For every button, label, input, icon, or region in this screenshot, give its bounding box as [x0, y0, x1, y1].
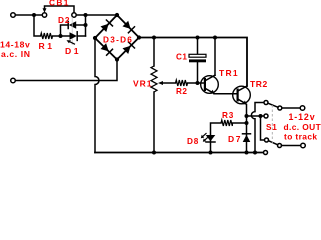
wire TR1 emitter to TR2 base — [214, 93, 237, 95]
junction dot rail/C1 — [196, 36, 200, 40]
wire 0V riser from bridge left corner with hop over AC wire — [95, 40, 99, 153]
wire emitter node to switch — [247, 115, 265, 117]
resistor R3 — [221, 120, 233, 126]
transistor TR1 — [201, 75, 219, 94]
wire C1 top stem — [197, 40, 199, 55]
terminal AC bottom-left — [11, 78, 16, 83]
svg-text:1-12v: 1-12v — [289, 112, 316, 122]
wire bridge bottom to lower AC terminal — [16, 62, 117, 81]
capacitor C1 — [189, 54, 206, 62]
svg-text:14-18v: 14-18v — [0, 39, 30, 49]
LED D8 (points down) with arrows — [201, 133, 216, 142]
switch S1 contact L3 — [265, 138, 269, 142]
junction dot at (85.5,15) — [84, 13, 88, 17]
svg-text:a.c. IN: a.c. IN — [1, 49, 31, 59]
switch S1 contact L4 (0V rail end) — [264, 151, 268, 155]
switch S1 blade top — [268, 103, 278, 107]
diode D5 (left to bottom arm) — [101, 43, 113, 55]
svg-text:to track: to track — [284, 132, 317, 142]
wire terminal to node — [16, 14, 42, 16]
potentiometer VR1 — [151, 66, 157, 92]
svg-text:D7: D7 — [228, 134, 242, 144]
junction dot VR1/0V rail — [152, 151, 156, 155]
wire R3 to D8 — [211, 123, 222, 153]
svg-text:VR1: VR1 — [133, 78, 153, 88]
junction dot rail/VR1 — [152, 36, 156, 40]
wire drop to lower switch contact — [261, 116, 265, 140]
svg-text:D3-D6: D3-D6 — [103, 35, 133, 44]
wire R2 to TR1 base — [188, 82, 206, 84]
transistor TR2 — [233, 86, 251, 105]
switch S1 pole P2 — [278, 144, 282, 148]
svg-text:S1: S1 — [266, 123, 278, 132]
wire block left vertical — [61, 25, 68, 36]
junction dot at (260.5,116) — [259, 114, 263, 118]
node junction dot at (34,15) — [32, 13, 36, 17]
resistor R1 — [41, 33, 53, 39]
junction dot C1/base wire — [196, 81, 200, 85]
switch S1 contact L1 — [264, 101, 268, 105]
svg-text:CB1: CB1 — [49, 0, 70, 8]
junction dot at (85.5,25) — [84, 23, 88, 27]
junction dot D8/0V rail — [209, 151, 213, 155]
resistor R2 — [176, 80, 188, 86]
diode D2 (points left) — [68, 21, 83, 28]
terminal AC top-left — [11, 13, 16, 18]
svg-text:C1: C1 — [176, 52, 187, 61]
switch S1 blade bottom — [268, 141, 277, 145]
VR1 wiper arrow — [158, 81, 176, 85]
wire VR1 bottom to 0V rail — [153, 92, 155, 153]
svg-text:R2: R2 — [176, 87, 187, 96]
terminal OUT top — [300, 106, 305, 111]
wire P2 to output terminal — [282, 145, 301, 147]
svg-text:D2: D2 — [58, 15, 70, 25]
junction dot emitter node — [245, 114, 249, 118]
svg-text:R3: R3 — [222, 111, 234, 120]
wire + rail from bridge right corner — [141, 38, 247, 87]
wire P1 to output terminal — [282, 107, 300, 109]
switch S1 coupling dashed line — [271, 105, 273, 144]
diode D6 (bottom to right arm) — [123, 42, 135, 54]
wire block right vertical to rail — [85, 15, 87, 36]
svg-text:D8: D8 — [187, 137, 199, 146]
switch S1 pole P1 — [278, 106, 282, 110]
svg-text:TR2: TR2 — [250, 79, 268, 89]
wire TR2 emitter down — [246, 105, 248, 153]
svg-text:d.c. OUT: d.c. OUT — [284, 122, 321, 132]
junction dot R3 node — [245, 121, 249, 125]
wire C1 bottom stem — [197, 62, 199, 83]
diode D1 (points right) — [61, 32, 86, 41]
circuit breaker CB1 — [42, 6, 76, 17]
wire TR1 collector to rail — [214, 40, 216, 76]
terminal OUT bottom — [301, 143, 306, 148]
svg-text:D1: D1 — [65, 46, 81, 56]
wire R3 branch — [233, 122, 247, 124]
junction dot D7/0V rail — [245, 151, 249, 155]
wire CB1 to bridge top — [76, 14, 117, 16]
node dots bridge corners — [115, 13, 119, 17]
bridge rectifier D3-D6 diamond wires — [95, 15, 139, 60]
wire bottom 0V rail — [95, 152, 263, 154]
svg-text:TR1: TR1 — [219, 68, 239, 78]
diode D3 (left to top arm) — [101, 20, 113, 32]
wire R1 to D1/D2 block — [53, 35, 61, 37]
label D1 with leader arrow — [67, 40, 76, 44]
junction dot rail/TR1 collector — [213, 36, 217, 40]
diode D7 (points up) — [243, 134, 251, 142]
wire node down to R1 — [34, 17, 41, 36]
wire 0V riser to top switch contact with hop — [251, 103, 264, 153]
svg-text:R1: R1 — [39, 41, 55, 51]
diode D4 (top to right arm) — [123, 21, 135, 33]
junction dot riser/0V rail — [253, 151, 257, 155]
node dot at (60.5,36) — [59, 34, 63, 38]
wire VR1 top — [153, 40, 155, 67]
switch S1 contact L2 — [264, 114, 268, 118]
wire faint crease line — [71, 17, 73, 45]
